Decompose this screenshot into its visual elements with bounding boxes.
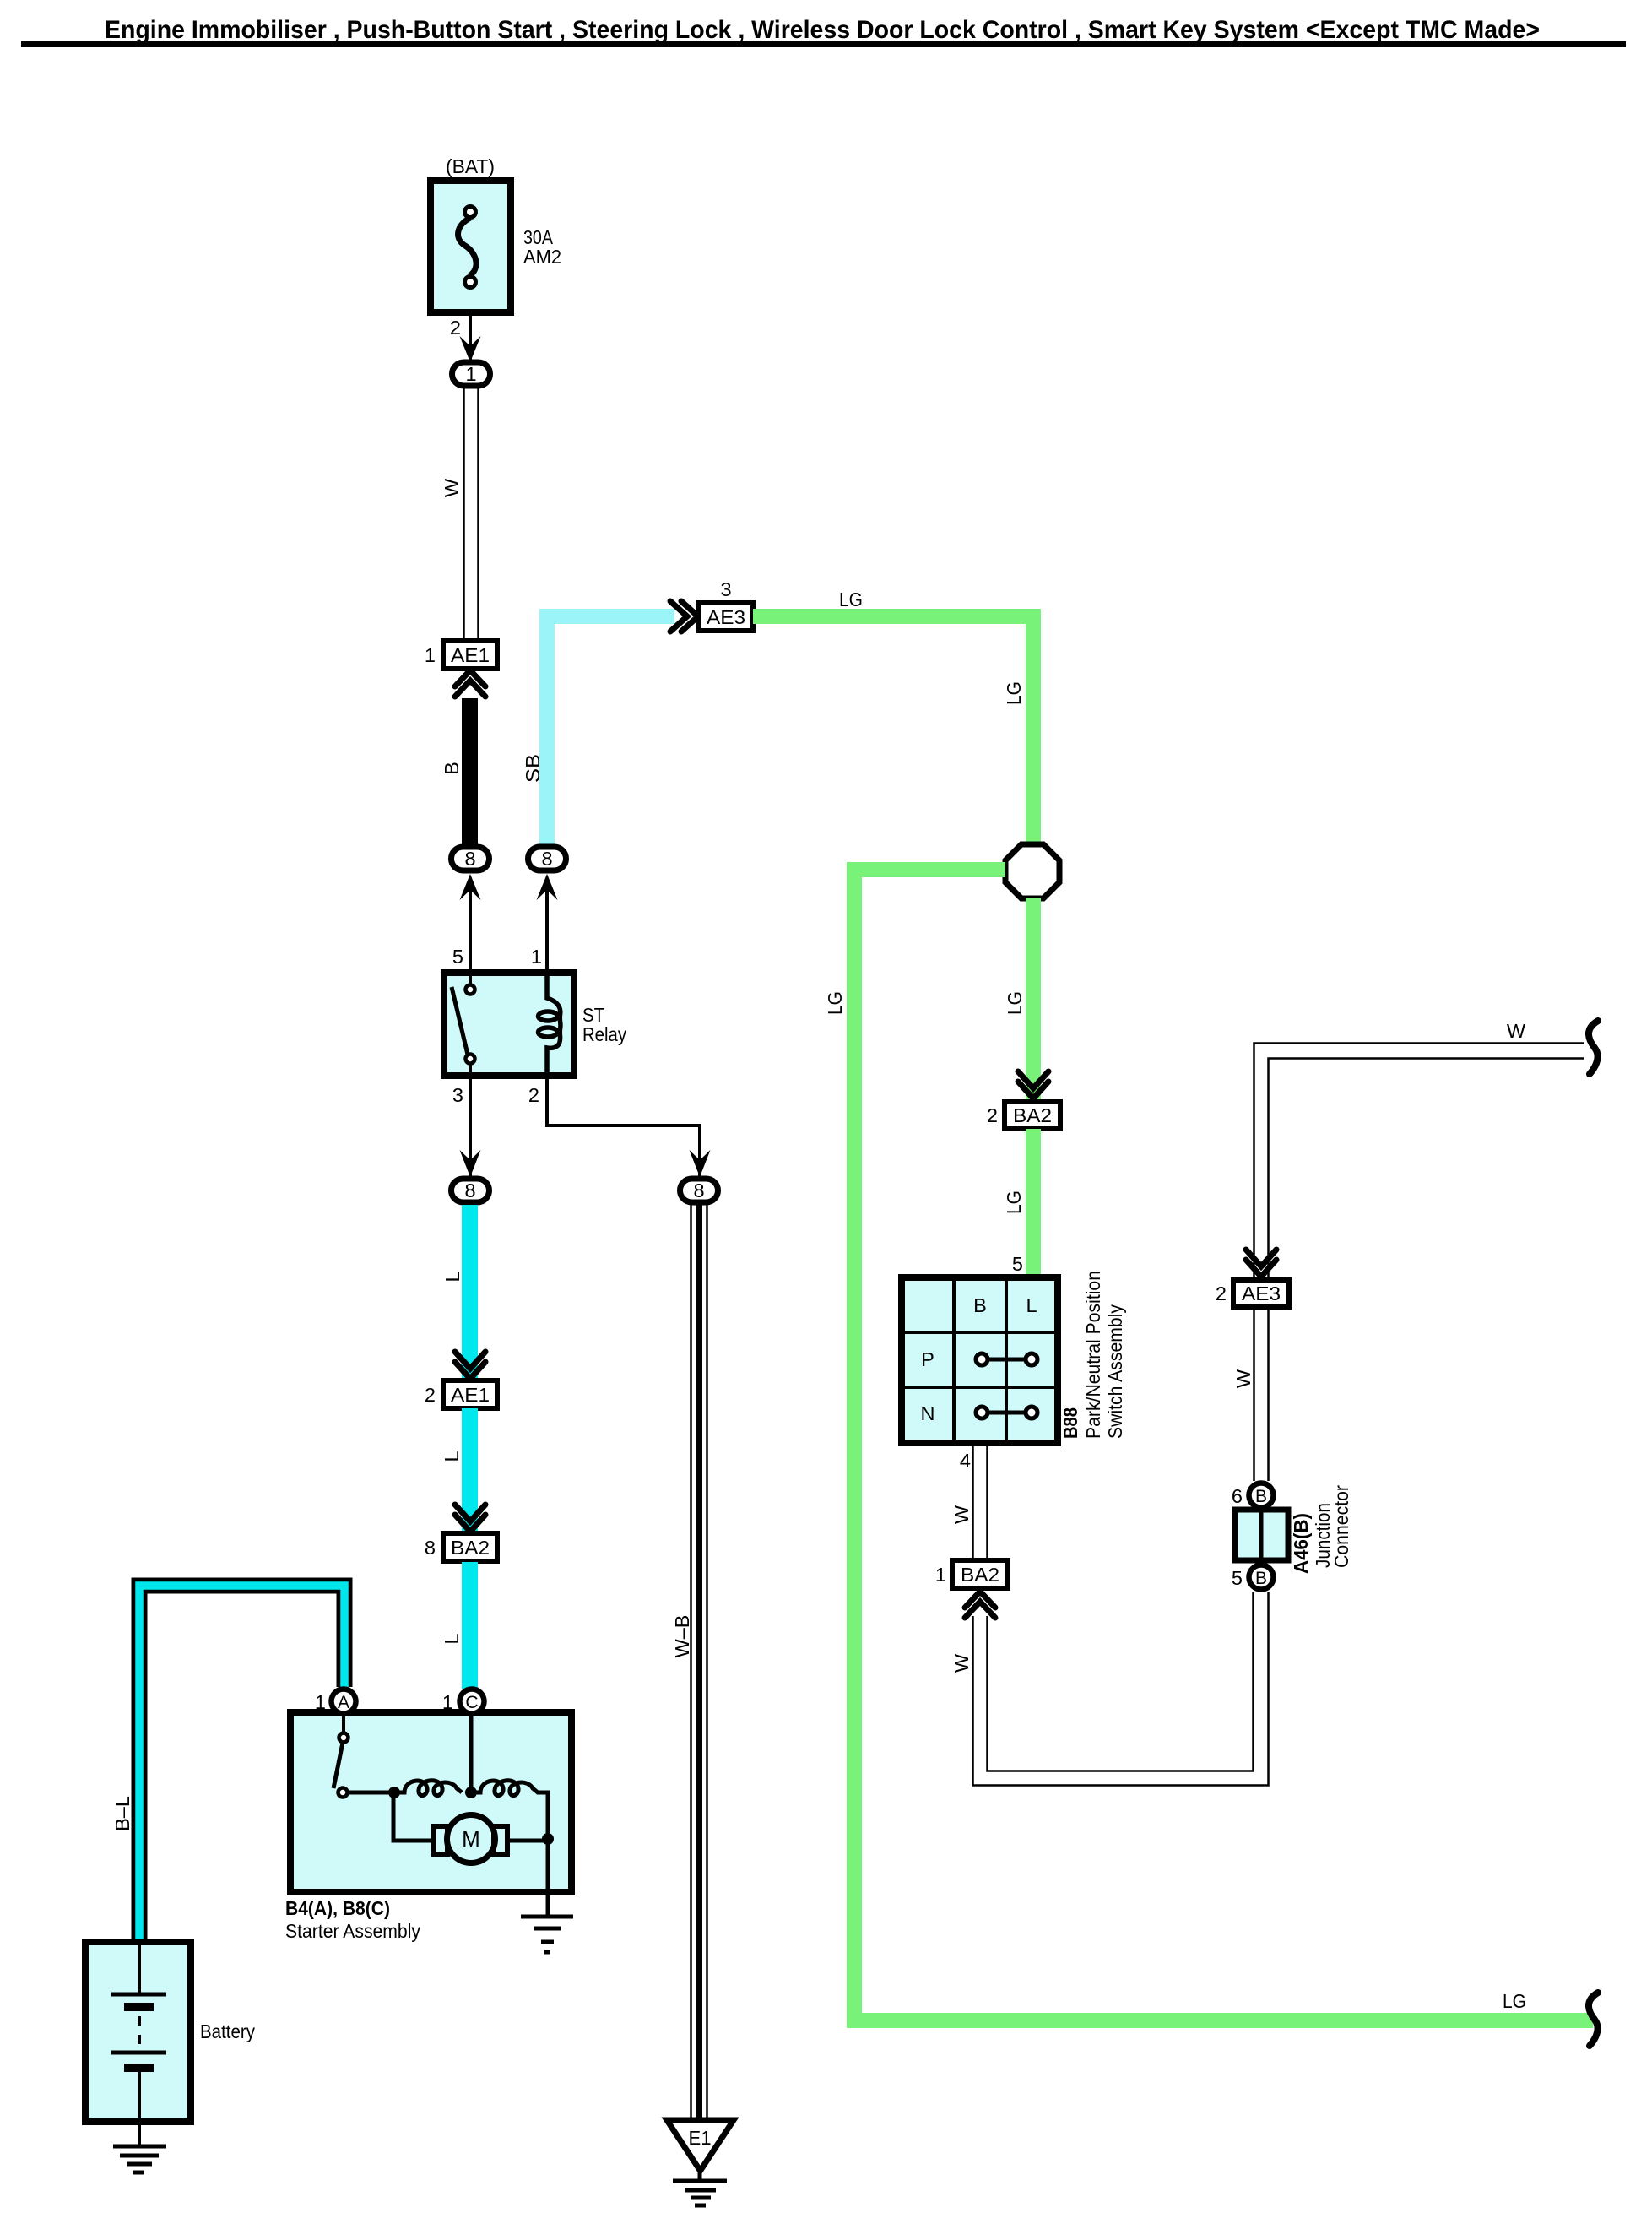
svg-text:B4(A), B8(C): B4(A), B8(C) [285,1897,390,1919]
wire break squiggle (W) [1589,1021,1598,1074]
motor brush right [494,1826,507,1854]
svg-text:AE3: AE3 [1242,1283,1281,1304]
chevron pair down above BA2 pin8 [455,1505,485,1532]
connector oval 8 (L wire) [452,1179,490,1202]
terminal circle B pin 5 [1249,1565,1274,1590]
svg-text:8: 8 [425,1537,436,1559]
relay switch contacts [452,973,475,1076]
chevron pair down above BA2 pin2 [1018,1071,1048,1098]
svg-text:M: M [462,1826,480,1852]
svg-text:Engine Immobiliser , Push-Butt: Engine Immobiliser , Push-Button Start ,… [105,16,1540,44]
terminal circle B pin 6 [1249,1483,1274,1508]
svg-text:5: 5 [452,946,463,968]
connector AE1 pin 1 [443,641,497,669]
connector AE3 pin 3 [699,603,753,631]
svg-text:N: N [921,1402,935,1424]
motor M [447,1815,496,1863]
wire break squiggle (LG) [1589,1993,1598,2046]
svg-text:1: 1 [315,1691,326,1713]
svg-text:2: 2 [987,1104,998,1126]
title rule [21,41,1626,47]
fuse 30A AM2 [431,181,511,312]
ground (E1) [673,2181,727,2205]
ground (battery) [113,2146,166,2172]
svg-text:8: 8 [464,848,475,870]
svg-text:2: 2 [1216,1283,1227,1304]
connector oval 8 (W-B wire) [680,1179,718,1202]
wire LG octagon left leg [847,862,1593,2028]
svg-text:B: B [441,762,463,775]
chevron pair right into AE3 [670,601,698,632]
wire W (fuse to AE1) [464,388,479,641]
wire W BA2 down and around to A46 [973,1592,1269,1786]
svg-text:3: 3 [720,578,731,600]
wire B (black) [462,698,478,847]
svg-text:SB: SB [522,754,544,783]
wire W A46 pin6 to AE3 pin2 [1254,1307,1269,1481]
svg-text:C: C [465,1693,478,1712]
wire L segment 2 [462,1408,478,1534]
svg-text:1: 1 [425,644,436,666]
svg-text:5: 5 [1232,1567,1243,1589]
splice octagon [1005,844,1059,898]
svg-text:L: L [441,1633,463,1644]
junction dot [388,1787,400,1798]
svg-text:2: 2 [528,1084,539,1106]
arrow down into oval 8 (W-B) [690,1150,711,1177]
svg-text:Park/Neutral Position: Park/Neutral Position [1082,1271,1104,1439]
connector oval 1 [452,362,490,386]
wire to starter ground [546,1839,550,1917]
motor brush left [434,1826,447,1854]
wire W AE3 up and right to break [1254,1044,1585,1281]
svg-text:BA2: BA2 [961,1564,999,1586]
svg-text:AM2: AM2 [523,246,561,268]
svg-text:W: W [441,478,463,497]
wire relay pin2 down and right [547,1076,700,1176]
svg-text:B: B [1255,1487,1267,1506]
svg-text:P: P [921,1348,934,1370]
relay coil [539,973,561,1076]
starter box [290,1712,571,1892]
starter field coil 1 [394,1781,462,1796]
svg-text:1: 1 [465,363,476,385]
svg-text:BA2: BA2 [451,1537,490,1559]
svg-text:Battery: Battery [200,2020,255,2042]
chevron pair down above AE1 pin2 [455,1352,485,1379]
svg-text:W: W [951,1653,972,1673]
svg-text:B: B [973,1294,987,1316]
svg-text:AE3: AE3 [707,606,745,628]
arrow down into connector 1 [460,336,481,362]
svg-text:2: 2 [450,317,461,339]
contact P row [976,1353,1037,1365]
wire C to coil junction [469,1716,474,1792]
svg-text:AE1: AE1 [451,1384,490,1406]
connector BA2 pin 1 [952,1560,1008,1588]
wire L segment 1 [462,1205,478,1381]
junction dot [465,1787,477,1798]
svg-text:LG: LG [824,991,846,1015]
wire L segment 3 [462,1562,478,1689]
junction connector A46 box [1235,1510,1288,1560]
wire left brush to coil junction [393,1792,434,1841]
wire fuse to connector 1 [469,312,472,363]
arrow up into oval 8 right [537,874,558,900]
connector BA2 pin 8 [443,1533,497,1561]
connector AE3 pin 2 [1233,1280,1289,1307]
svg-text:W: W [1507,1020,1526,1042]
svg-text:Starter Assembly: Starter Assembly [285,1920,420,1942]
svg-text:1: 1 [531,946,542,968]
terminal circle A [332,1689,356,1714]
svg-text:6: 6 [1232,1485,1243,1507]
svg-text:1: 1 [442,1691,453,1713]
arrow up into oval 8 left [460,874,481,900]
svg-text:4: 4 [960,1450,971,1472]
contact N row [976,1407,1037,1418]
relay box ST [444,973,574,1076]
svg-text:2: 2 [425,1384,436,1406]
svg-text:LG: LG [1003,681,1025,705]
wire LG (AE3 to octagon) [753,609,1041,845]
svg-text:AE1: AE1 [451,644,490,666]
connector oval 8 (SB wire) [528,847,566,870]
chevron pair up below AE1 [455,670,485,697]
wire relay pin1 to oval [545,885,549,973]
wire right brush to junction [507,1839,548,1843]
connector AE1 pin 2 [443,1380,497,1408]
svg-text:LG: LG [1003,1190,1025,1214]
chevron pair up below BA2 pin1 [965,1592,995,1618]
svg-text:E1: E1 [689,2127,712,2149]
svg-text:Switch Assembly: Switch Assembly [1104,1304,1126,1439]
ground point E1 [667,2120,734,2180]
svg-text:3: 3 [452,1084,463,1106]
wire W B88 pin4 down [973,1443,988,1560]
junction dot [542,1833,554,1845]
svg-text:L: L [1026,1294,1037,1316]
wire relay pin3 down [469,1076,472,1176]
wire W-B [691,1205,707,2120]
arrow down into oval 8 (L) [460,1150,481,1177]
svg-text:Connector: Connector [1330,1485,1352,1568]
svg-text:B88: B88 [1059,1407,1081,1439]
svg-text:LG: LG [839,588,863,610]
svg-text:Relay: Relay [582,1023,626,1045]
svg-text:L: L [441,1451,463,1462]
battery cells [111,1942,166,2145]
svg-text:W: W [1232,1369,1254,1388]
svg-text:A: A [338,1693,349,1712]
svg-text:8: 8 [693,1180,704,1201]
svg-text:LG: LG [1503,1990,1526,2012]
wire relay pin5 to oval [469,885,472,973]
starter solenoid switch [333,1716,394,1798]
starter field coil 2 [471,1781,548,1839]
svg-text:8: 8 [541,848,552,870]
svg-text:(BAT): (BAT) [446,155,495,177]
svg-text:B: B [1255,1569,1267,1588]
ground (starter) [521,1917,573,1952]
svg-text:BA2: BA2 [1013,1104,1052,1126]
wire LG BA2 to B88 [1026,1129,1041,1281]
wire LG octagon down to BA2 [1026,898,1041,1102]
svg-text:W–B: W–B [671,1615,693,1658]
terminal circle C [460,1689,485,1714]
chevron pair down above AE3 pin2 [1246,1250,1276,1277]
svg-text:5: 5 [1012,1253,1023,1275]
switch B88 box [902,1277,1058,1443]
svg-text:8: 8 [464,1180,475,1201]
svg-text:LG: LG [1004,991,1026,1015]
connector BA2 pin 2 [1005,1102,1060,1129]
svg-text:W: W [951,1505,972,1524]
svg-text:A46(B): A46(B) [1290,1513,1312,1574]
wire SB (oval to corner to AE3) [539,609,674,847]
connector oval 8 (B wire) [452,847,490,870]
wire B-L battery to starter A [139,1586,344,1944]
svg-text:L: L [441,1271,463,1282]
svg-text:B–L: B–L [111,1796,133,1831]
svg-text:1: 1 [935,1564,946,1586]
battery box [85,1942,191,2122]
